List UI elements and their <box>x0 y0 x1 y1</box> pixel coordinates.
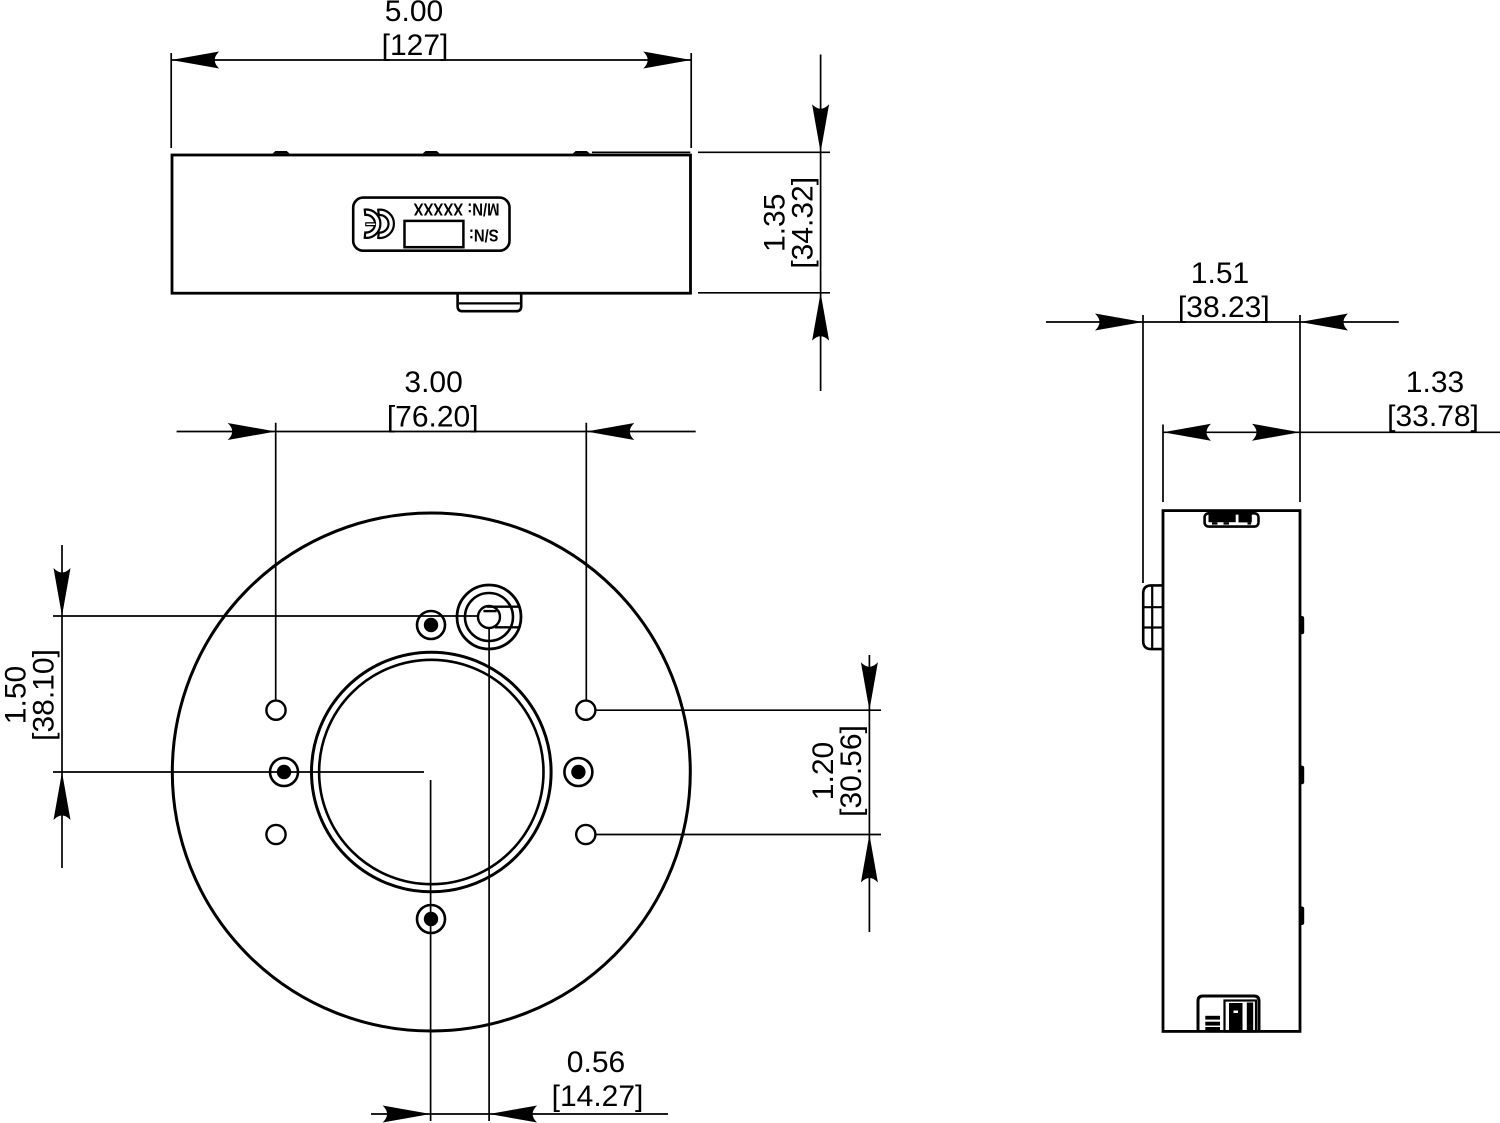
screw bottom center <box>424 912 438 926</box>
dimension 1.35 ext line bottom <box>698 292 830 294</box>
side view top connector contact A <box>1209 512 1236 525</box>
screw left center <box>277 765 291 779</box>
label plate outline <box>353 198 509 251</box>
CE mark rotated (E glyph) <box>365 210 381 238</box>
side view top connector contact B <box>1239 512 1252 525</box>
connector keyway chord <box>483 610 496 612</box>
dimension 1.20 ext line bottom <box>596 834 882 836</box>
dimension 1.35 arrow bottom <box>812 293 829 341</box>
screw top outer <box>417 611 445 639</box>
side view right bump 3 <box>1300 907 1305 926</box>
top view screw bump 1 <box>273 151 290 154</box>
center bore inner circle <box>319 660 543 884</box>
dimension 1.33 arrow left <box>1163 424 1211 441</box>
svg-text:[14.27]: [14.27] <box>552 1080 644 1113</box>
screw left outer <box>270 758 298 786</box>
side view bottom label barcode bar 1 <box>1229 1003 1243 1032</box>
dimension 1.35 arrow top <box>812 104 829 152</box>
dimension 5.00 line <box>171 59 691 61</box>
dimension 1.51 ext line left <box>1142 315 1144 583</box>
svg-text:[76.20]: [76.20] <box>387 401 479 434</box>
dimension 1.51 ext line right <box>1299 315 1301 502</box>
side view right bump 2 <box>1300 766 1305 785</box>
connector middle circle <box>465 593 513 641</box>
svg-text:[127]: [127] <box>382 29 449 62</box>
top view lip edge <box>592 151 690 153</box>
dimension 0.56 arrow right <box>489 1106 537 1123</box>
connector small circle <box>478 606 500 628</box>
screw right center <box>571 765 585 779</box>
side view top connector outline <box>1205 513 1259 526</box>
dimension 1.50 arrow top <box>54 568 71 616</box>
bottom tab inner line <box>459 302 520 304</box>
side view left tab inner vertical <box>1151 585 1153 649</box>
svg-text:[30.56]: [30.56] <box>835 725 868 817</box>
dimension 1.51 line <box>1046 321 1399 323</box>
svg-text:[34.32]: [34.32] <box>786 177 819 269</box>
screw right outer <box>564 758 592 786</box>
connector keyway top line <box>487 606 519 608</box>
dimension 0.56 arrow left <box>383 1106 431 1123</box>
dimension 1.20 arrow top <box>861 662 878 710</box>
dimension 1.33 line <box>1163 431 1500 433</box>
dimension 3.00 arrow left <box>228 423 276 440</box>
side view bottom label barcode bar 2 <box>1247 1003 1253 1032</box>
center bore outer circle <box>312 652 552 892</box>
hole bottom left <box>266 825 285 844</box>
bottom tab of top view <box>458 293 522 311</box>
svg-text:0.56: 0.56 <box>567 1046 625 1079</box>
serial number box <box>405 221 464 247</box>
dimension 3.00 ext line right <box>585 423 587 700</box>
dimension 1.51 arrow left <box>1095 314 1143 331</box>
side view left tab divider 1 <box>1144 606 1163 608</box>
hole top right <box>576 701 595 720</box>
dimension 5.00 ext line left <box>170 53 172 148</box>
svg-text:1.51: 1.51 <box>1191 257 1249 290</box>
dimension 1.51 arrow right <box>1300 314 1348 331</box>
side view bottom label text bar 3 <box>1205 1027 1220 1032</box>
dimension 1.35 ext line top <box>698 151 830 153</box>
svg-text:1.33: 1.33 <box>1406 366 1464 399</box>
dimension 3.00 line <box>177 431 696 433</box>
svg-text:M/N: XXXXX: M/N: XXXXX <box>413 199 499 218</box>
dimension 0.56 ext line connector <box>488 629 490 1122</box>
svg-text:S/N:: S/N: <box>469 225 499 244</box>
dimension 1.35 line <box>820 55 822 392</box>
dimension 1.33 arrow right <box>1252 424 1300 441</box>
side view right bump 1 <box>1300 616 1305 634</box>
dimension 3.00 ext line left <box>275 423 277 700</box>
svg-text:[33.78]: [33.78] <box>1387 400 1479 433</box>
CE mark rotated (C glyph) <box>378 210 394 238</box>
svg-text:[38.23]: [38.23] <box>1178 291 1270 324</box>
connector keyway bottom line <box>495 626 520 628</box>
svg-text:[38.10]: [38.10] <box>28 649 61 741</box>
dimension 1.20 arrow bottom <box>861 835 878 883</box>
side view bottom label outline <box>1198 996 1259 1032</box>
dimension 5.00 arrow right <box>643 52 691 69</box>
top view screw bump 3 <box>573 151 590 154</box>
dimension 1.50 ext line bottom <box>53 771 424 773</box>
hole bottom right <box>576 825 595 844</box>
connector outer circle <box>457 585 521 649</box>
dimension 1.33 ext line left <box>1162 425 1164 503</box>
hole top left <box>266 701 285 720</box>
side view left tab outline <box>1143 585 1163 649</box>
dimension 1.20 ext line top <box>596 709 882 711</box>
side view left tab divider 2 <box>1144 626 1163 628</box>
dimension 1.50 ext line top <box>53 615 478 617</box>
side view bottom label text bar 2 <box>1205 1022 1220 1026</box>
front view outer circle <box>172 513 690 1031</box>
dimension 3.00 arrow right <box>586 423 634 440</box>
dimension 5.00 arrow left <box>171 52 219 69</box>
dimension 0.56 line <box>371 1113 668 1115</box>
side view outline <box>1163 511 1300 1032</box>
side view bottom label barcode notch <box>1234 1011 1239 1014</box>
side view bottom label inner box <box>1225 1001 1257 1032</box>
top view outline <box>172 155 691 293</box>
svg-text:3.00: 3.00 <box>404 366 462 399</box>
dimension 1.50 line <box>61 545 63 868</box>
screw top center <box>424 618 438 632</box>
dimension 0.56 ext line center <box>430 780 432 1121</box>
dimension 5.00 ext line right <box>690 53 692 148</box>
svg-text:5.00: 5.00 <box>385 0 443 28</box>
screw bottom outer <box>417 905 445 933</box>
dimension 1.50 arrow bottom <box>54 772 71 820</box>
dimension 1.20 line <box>868 655 870 932</box>
side view bottom label text bar 1 <box>1205 1016 1220 1020</box>
top view screw bump 2 <box>423 151 440 154</box>
